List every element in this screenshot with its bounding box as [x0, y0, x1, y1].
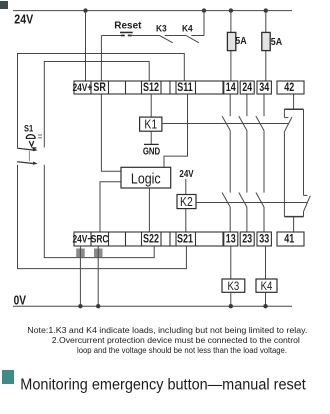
svg-text:24V: 24V	[179, 168, 193, 179]
svg-text:S1: S1	[24, 124, 34, 134]
svg-text:K4: K4	[182, 23, 193, 34]
svg-text:S22: S22	[143, 234, 159, 246]
svg-text:5A: 5A	[271, 36, 282, 48]
svg-text:42: 42	[284, 82, 294, 94]
svg-text:2.Overcurrent protection devic: 2.Overcurrent protection device must be …	[52, 336, 300, 345]
svg-text:24V: 24V	[14, 13, 33, 27]
svg-text:5A: 5A	[235, 35, 246, 47]
svg-text:K2: K2	[180, 195, 193, 209]
svg-text:S21: S21	[177, 234, 193, 246]
svg-text:K3: K3	[156, 23, 167, 34]
svg-text:41: 41	[284, 234, 294, 246]
svg-text:loop and the voltage should be: loop and the voltage should be not less …	[77, 346, 287, 355]
svg-text:33: 33	[259, 234, 269, 246]
svg-text:34: 34	[259, 82, 269, 94]
svg-text:Logic: Logic	[131, 170, 161, 186]
svg-text:14: 14	[226, 82, 236, 94]
svg-text:GND: GND	[143, 146, 161, 157]
svg-text:Monitoring emergency button—ma: Monitoring emergency button—manual reset	[20, 377, 306, 394]
svg-text:K3: K3	[228, 280, 240, 293]
svg-text:24V+: 24V+	[72, 82, 92, 95]
svg-text:S12: S12	[143, 82, 159, 94]
svg-text:Reset: Reset	[114, 20, 142, 31]
svg-text:S11: S11	[177, 82, 193, 94]
svg-text:24V−: 24V−	[72, 233, 92, 246]
svg-text:K4: K4	[261, 280, 273, 293]
svg-text:13: 13	[226, 234, 236, 246]
svg-text:23: 23	[242, 234, 252, 246]
svg-text:K1: K1	[144, 118, 157, 132]
svg-text:0V: 0V	[14, 293, 27, 307]
svg-text:24: 24	[242, 82, 252, 94]
svg-text:Note:1.K3 and K4 indicate load: Note:1.K3 and K4 indicate loads, includi…	[27, 326, 307, 335]
svg-text:SRC: SRC	[91, 233, 109, 246]
svg-text:SR: SR	[93, 82, 106, 94]
